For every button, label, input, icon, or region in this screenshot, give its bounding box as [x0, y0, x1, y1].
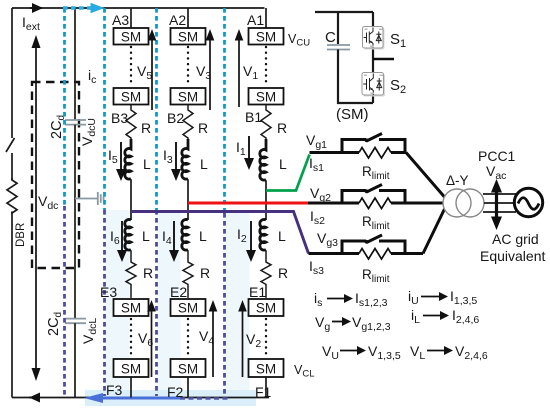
circulating current dashed line 1 purple — [63, 206, 66, 396]
wires transformer to grid — [483, 194, 516, 212]
svg-text:R: R — [277, 120, 287, 136]
ground symbol — [98, 192, 104, 205]
wire top drop leg2 — [187, 8, 189, 28]
dashed measurement box — [32, 82, 79, 268]
SM detail output stub — [373, 58, 394, 61]
inductor L lower leg1 — [260, 220, 266, 251]
inductor L lower leg3 — [125, 220, 131, 251]
top DC rail — [12, 7, 265, 9]
SM box F1 — [249, 359, 284, 377]
svg-text:Δ-Y: Δ-Y — [446, 173, 469, 188]
wire bottom drop leg3 — [130, 377, 132, 398]
DBR chopper switch — [6, 138, 15, 152]
capacitor 2CdU — [65, 120, 86, 125]
highlight band phase b — [158, 210, 181, 397]
breaker switch phase3 — [342, 241, 405, 254]
svg-text:R: R — [141, 120, 151, 136]
svg-text:SM: SM — [121, 30, 141, 45]
DC-link branch wire upper — [74, 8, 76, 120]
dotted arm continuation lower leg1 — [265, 319, 267, 357]
capacitor C — [327, 45, 350, 50]
arm voltage arrow V4 — [212, 309, 214, 377]
Vdc measurement arrow — [35, 48, 37, 368]
SM detail right branch wires — [372, 12, 374, 103]
svg-text:B3: B3 — [111, 110, 128, 126]
svg-text:R: R — [143, 265, 153, 281]
phase boundary dashed line 4 cyan — [223, 8, 226, 213]
wire bottom drop leg2 — [187, 377, 189, 398]
svg-text:L: L — [200, 156, 208, 172]
bottom DC rail — [12, 397, 269, 399]
left rail mid — [11, 153, 13, 180]
resistor R upper leg2 — [183, 105, 193, 140]
ground stub — [75, 198, 98, 200]
svg-text:PCC1: PCC1 — [478, 148, 516, 164]
arm current arrow I6 — [121, 221, 123, 252]
bottom rail current arrow — [29, 393, 40, 403]
arm voltage arrow V2 — [242, 309, 244, 377]
bottom blue circulating arrow — [100, 397, 180, 400]
arm voltage arrow V3 — [209, 38, 211, 110]
svg-text:E3: E3 — [100, 284, 117, 300]
arm voltage arrow V1 — [238, 38, 240, 107]
svg-text:B1: B1 — [245, 109, 262, 125]
Rlimit resistor phase3 — [309, 252, 424, 255]
SM box F3 — [114, 359, 149, 377]
highlight band phase c — [226, 210, 250, 397]
dotted arm continuation lower leg3 — [130, 319, 132, 357]
wire phase1 to transformer — [406, 153, 445, 198]
SM box A2 — [171, 28, 206, 45]
SM box B2 — [171, 88, 206, 105]
svg-text:SM: SM — [121, 90, 141, 105]
circulating current dashed line 2 purple — [103, 210, 106, 396]
dotted arm continuation upper leg3 — [130, 47, 132, 86]
top rail current arrow — [30, 7, 42, 9]
transformer delta-wye — [443, 189, 471, 217]
left rail lower — [11, 212, 13, 398]
svg-text:F1: F1 — [255, 384, 272, 400]
SM box F2 — [171, 359, 206, 377]
svg-text:R: R — [198, 120, 208, 136]
phase boundary dashed line 3 purple — [155, 210, 158, 396]
Rlimit resistor phase1 — [310, 151, 407, 154]
svg-text:E2: E2 — [170, 284, 187, 300]
phase boundary dashed line 4 purple — [223, 213, 226, 396]
svg-text:C: C — [325, 29, 336, 46]
inductor L upper leg2 — [182, 139, 188, 179]
wire mid leg2 — [187, 179, 189, 220]
wire phase3 to transformer — [423, 209, 445, 254]
svg-text:R: R — [278, 265, 288, 281]
svg-text:A3: A3 — [112, 12, 129, 28]
inductor L upper leg1 — [260, 139, 266, 180]
arm current arrow I2 — [250, 221, 252, 252]
resistor R upper leg1 — [261, 105, 271, 140]
SM box E1 — [249, 299, 284, 316]
SM box A1 — [249, 28, 284, 45]
svg-text:SM: SM — [178, 90, 198, 105]
svg-text:SM: SM — [178, 362, 198, 377]
SM detail capacitor lower wire — [338, 50, 373, 104]
phase output wire green (leg1) — [266, 155, 310, 191]
svg-text:E1: E1 — [249, 284, 266, 300]
svg-text:SM: SM — [178, 301, 198, 316]
DC-link branch wire middle — [74, 125, 76, 319]
ic cyan dotted arrow on top rail — [63, 6, 91, 9]
SM box E3 — [114, 299, 149, 316]
svg-text:L: L — [143, 156, 151, 172]
svg-text:DBR: DBR — [15, 223, 27, 247]
svg-text:L: L — [278, 228, 286, 244]
svg-text:Equivalent: Equivalent — [480, 248, 545, 264]
phase boundary dashed line 3 cyan — [155, 8, 158, 210]
wire top drop leg1 — [265, 8, 267, 28]
highlight band phase a — [106, 210, 130, 397]
resistor R lower leg2 — [183, 250, 193, 298]
arm current arrow I5 — [120, 142, 122, 171]
DC-link branch wire lower — [74, 323, 76, 397]
resistor R lower leg1 — [261, 250, 271, 298]
arm current arrow I4 — [173, 221, 175, 252]
SM box B1 — [249, 88, 284, 105]
svg-text:F3: F3 — [106, 382, 123, 398]
phase output wire purple (leg3) — [131, 212, 309, 254]
wire mid leg1 — [265, 180, 267, 220]
breaker switch phase1 — [342, 140, 405, 153]
wire top drop leg3 — [130, 8, 132, 28]
svg-text:L: L — [199, 228, 207, 244]
inductor L lower leg2 — [182, 220, 188, 251]
capacitor 2CdL — [65, 319, 86, 324]
arm voltage arrow V5 — [151, 38, 153, 110]
svg-text:SM: SM — [256, 301, 276, 316]
dotted arm continuation lower leg2 — [187, 319, 189, 357]
SM box B3 — [114, 88, 149, 105]
SM box E2 — [171, 299, 206, 316]
IGBT S2 — [362, 73, 385, 97]
arm current arrow I3 — [175, 142, 177, 171]
arm voltage arrow V6 — [151, 309, 153, 377]
wire bottom drop leg1 — [265, 377, 267, 398]
svg-text:SM: SM — [256, 362, 276, 377]
SM detail capacitor branch wire — [337, 12, 339, 44]
svg-text:(SM): (SM) — [336, 106, 369, 123]
dotted arm continuation upper leg2 — [187, 47, 189, 86]
breaker switch phase2 — [342, 191, 405, 204]
wire mid leg3 — [130, 179, 132, 220]
svg-text:B2: B2 — [167, 110, 184, 126]
Vac double arrow — [495, 190, 498, 219]
left DC rail upper — [11, 8, 13, 138]
arm current arrow I1 — [248, 136, 250, 160]
svg-text:SM: SM — [256, 30, 276, 45]
svg-text:AC grid: AC grid — [492, 231, 539, 247]
svg-text:SM: SM — [178, 30, 198, 45]
svg-text:SM: SM — [121, 362, 141, 377]
circulating current dashed line 1 cyan — [63, 8, 66, 206]
svg-text:R: R — [200, 265, 210, 281]
svg-text:SM: SM — [121, 301, 141, 316]
AC source — [514, 188, 542, 216]
svg-text:L: L — [142, 228, 150, 244]
phase output wire red (leg2) — [188, 202, 308, 205]
svg-text:SM: SM — [256, 90, 276, 105]
circulating current dashed line 2 cyan — [103, 8, 106, 210]
svg-text:F2: F2 — [167, 384, 184, 400]
SM box A3 — [114, 28, 149, 45]
resistor R upper leg3 — [126, 105, 136, 140]
svg-text:A1: A1 — [247, 12, 264, 28]
IGBT S1 — [363, 27, 385, 50]
resistor R lower leg3 — [126, 250, 136, 298]
svg-text:A2: A2 — [169, 12, 186, 28]
inductor L upper leg3 — [125, 139, 131, 179]
Rlimit resistor phase2 — [308, 202, 445, 205]
SM detail top wire — [315, 11, 373, 13]
highlight band bottom rail — [85, 390, 256, 406]
svg-text:L: L — [279, 156, 287, 172]
DBR resistor — [7, 178, 17, 213]
dotted arm continuation upper leg1 — [265, 47, 267, 86]
